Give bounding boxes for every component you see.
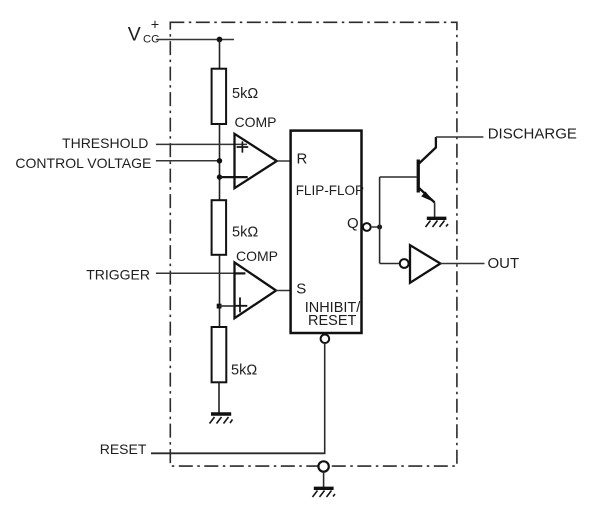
op-amp COMP2 trigger comparator triangle	[235, 262, 277, 318]
IC boundary dash-dot border	[170, 22, 457, 466]
svg-text:+: +	[151, 18, 159, 34]
bubble inhibit/reset input circle	[321, 335, 330, 344]
buffer U2 output stage triangle	[410, 245, 440, 283]
wire THRESHOLD to comparator plus input	[156, 143, 247, 145]
op-amp COMP1 threshold comparator triangle	[235, 134, 277, 188]
wire R1 to R2 divider segment	[219, 124, 221, 200]
svg-text:RESET: RESET	[308, 313, 356, 329]
ground (GND pin)	[313, 488, 336, 497]
wire COMP2 output to flip-flop S	[276, 290, 290, 292]
node comparator minus junction dot	[217, 174, 222, 179]
node VCC junction dot	[217, 37, 223, 43]
node VCC supply label	[128, 18, 160, 46]
svg-text:RESET: RESET	[100, 441, 147, 457]
wire CONTROL VOLTAGE to divider node	[156, 160, 220, 162]
bubble output buffer input circle	[400, 259, 409, 268]
svg-text:5kΩ: 5kΩ	[232, 86, 258, 102]
wire VCC node to R1	[219, 40, 221, 70]
bubble Q output inverter circle	[363, 223, 371, 231]
svg-text:TRIGGER: TRIGGER	[86, 267, 150, 283]
svg-text:DISCHARGE: DISCHARGE	[488, 126, 577, 143]
resistor R2 5k ohm (middle)	[212, 200, 227, 255]
svg-text:V: V	[128, 24, 141, 46]
svg-text:THRESHOLD: THRESHOLD	[62, 135, 148, 151]
wire Q junction to output buffer	[380, 263, 400, 265]
resistor R1 5k ohm (top)	[212, 69, 227, 124]
wire collector to DISCHARGE	[436, 136, 484, 138]
svg-text:COMP: COMP	[235, 114, 277, 130]
svg-text:5kΩ: 5kΩ	[231, 363, 257, 379]
wire Q bubble to junction	[371, 226, 380, 228]
flip-flop U1 box	[291, 131, 362, 333]
wire TRIGGER to COMP2 minus input	[156, 272, 235, 274]
svg-text:FLIP-FLOP: FLIP-FLOP	[296, 183, 364, 198]
svg-text:5kΩ: 5kΩ	[232, 225, 258, 241]
wire Q junction to transistor base and buffer	[379, 177, 381, 264]
wire emitter to ground	[434, 203, 436, 218]
node trigger-divider junction dot	[217, 304, 222, 309]
svg-text:OUT: OUT	[488, 255, 520, 272]
wire COMP1 output to flip-flop R	[277, 160, 290, 162]
node control-voltage junction dot	[217, 158, 222, 163]
minus sign COMP2	[235, 272, 246, 274]
pin GND circle on border	[318, 461, 328, 471]
wire VCC horizontal	[156, 39, 234, 41]
node Q junction dot	[377, 225, 382, 230]
resistor R3 5k ohm (bottom)	[212, 327, 227, 382]
wire base of Q1	[380, 176, 417, 178]
wire divider node to COMP2 plus input	[219, 305, 235, 307]
svg-text:CONTROL VOLTAGE: CONTROL VOLTAGE	[15, 155, 151, 171]
transistor Q1 discharge NPN	[417, 137, 436, 203]
svg-text:S: S	[296, 280, 306, 297]
svg-text:COMP: COMP	[236, 248, 278, 264]
wire divider node to COMP1 minus input	[220, 176, 248, 178]
ground (resistor chain)	[210, 414, 233, 424]
plus sign COMP2	[234, 297, 247, 312]
wire R3 to ground	[218, 382, 220, 413]
wire R2 to R3 divider segment	[219, 255, 221, 327]
wire buffer output to OUT	[440, 263, 484, 265]
svg-text:R: R	[297, 151, 308, 168]
svg-text:Q: Q	[347, 215, 359, 232]
wire RESET horizontal	[151, 452, 326, 454]
wire GND pin to ground	[323, 472, 325, 487]
plus sign COMP1	[237, 141, 249, 152]
ground (transistor emitter)	[426, 218, 449, 227]
wire inhibit bubble to RESET line	[324, 343, 326, 453]
